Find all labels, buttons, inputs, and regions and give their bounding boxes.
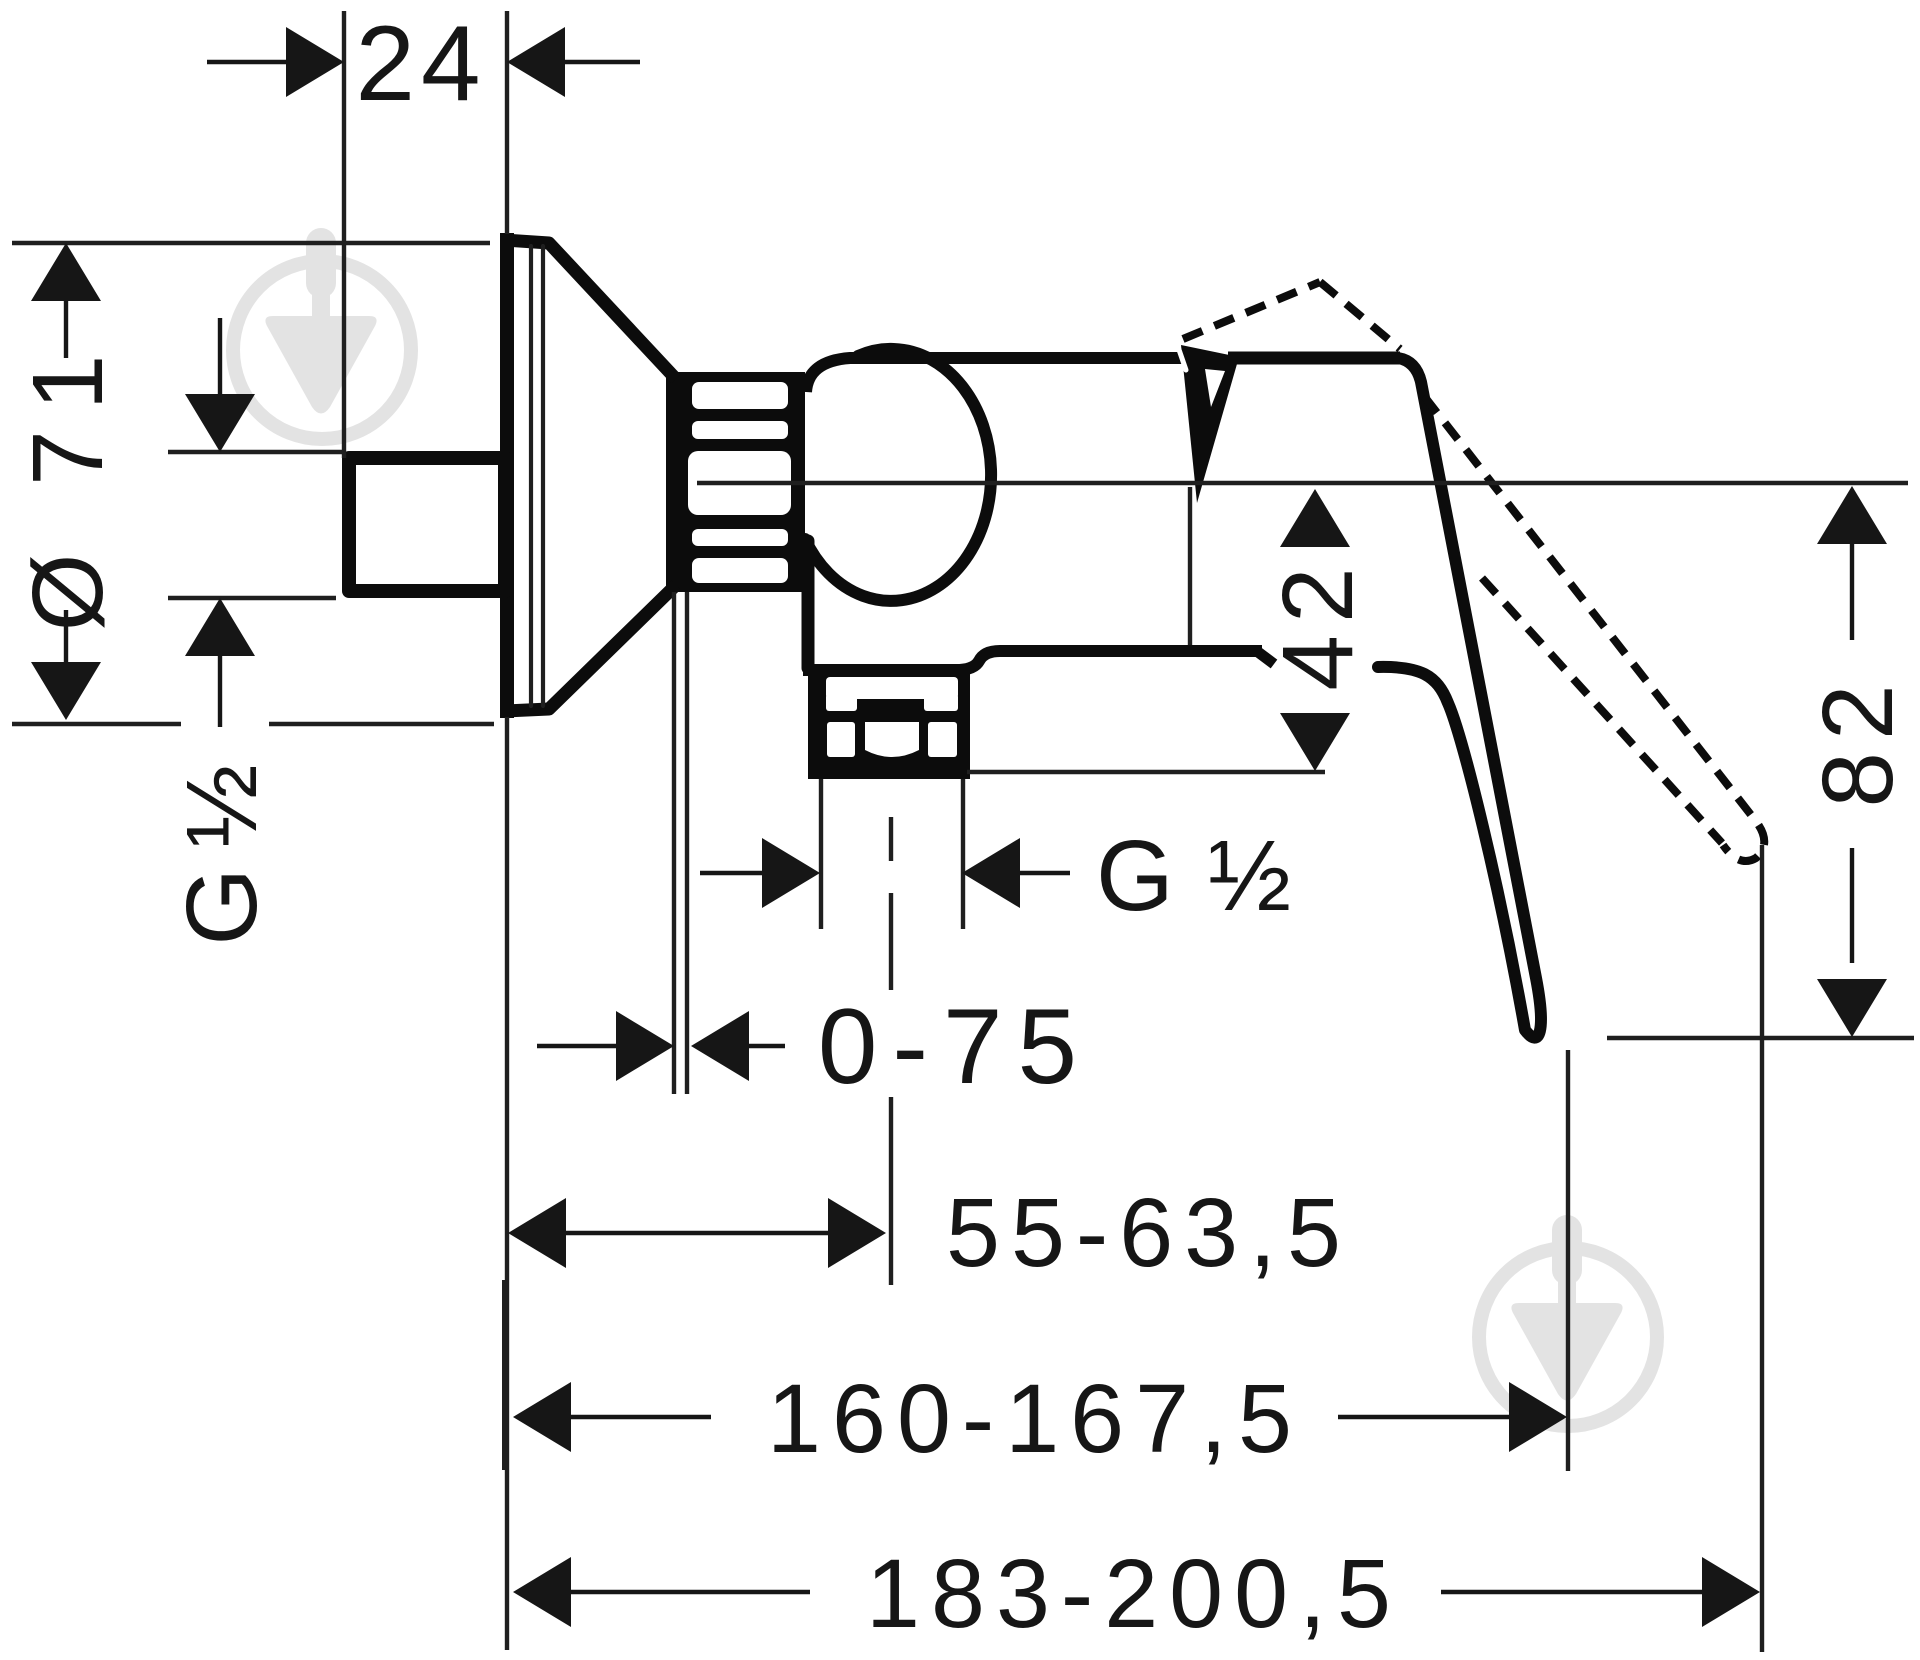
centerline through ball and handle <box>697 481 1908 485</box>
bottom extension line of dia 71 <box>12 722 494 726</box>
valve ball <box>805 349 991 601</box>
knurled connection nut <box>666 372 805 592</box>
lever handle (solid) <box>1228 352 1400 365</box>
dim 160-167,5 <box>513 1382 571 1452</box>
lever handle raised position (dashed) <box>1183 282 1764 861</box>
handle tip vertical extension <box>1566 1050 1570 1471</box>
dim dia71 vertical <box>31 243 101 301</box>
svg-text:183-200,5: 183-200,5 <box>866 1539 1402 1648</box>
dim 24 <box>207 60 286 64</box>
handle tip level extension (82) <box>1607 1036 1914 1040</box>
svg-text:55-63,5: 55-63,5 <box>946 1178 1352 1287</box>
handle wedge at body notch <box>1181 345 1239 503</box>
vertical extension at x=507 (flange face, full height) <box>505 11 509 1650</box>
body top edge <box>806 358 1197 392</box>
svg-text:160-167,5: 160-167,5 <box>767 1364 1303 1473</box>
wall flange cone <box>505 240 676 379</box>
outlet bottom level extension (42) <box>967 770 1325 774</box>
svg-text:42: 42 <box>1262 555 1374 690</box>
body/handle notch vertical <box>1188 487 1192 645</box>
watermark logo top-left <box>233 228 411 439</box>
outlet union nut <box>808 664 970 779</box>
dim 82 <box>1817 486 1887 544</box>
svg-text:82: 82 <box>1802 672 1914 807</box>
union nut side extensions <box>819 779 823 929</box>
doubled segment of main extension line <box>502 1280 506 1470</box>
double extension lines from flange (0-75) <box>672 592 676 1094</box>
stub bottom extension <box>168 596 336 600</box>
svg-text:24: 24 <box>355 3 486 123</box>
flange face plate <box>500 233 514 718</box>
svg-text:G ½: G ½ <box>1096 820 1298 932</box>
dashed-tip vertical extension <box>1760 845 1764 1652</box>
body bottom edge with step <box>803 651 1262 670</box>
stub top extension <box>168 450 344 454</box>
dim G1/2 middle (outlet) <box>700 871 762 875</box>
wall pipe stub <box>349 458 505 591</box>
dim 42 <box>1280 489 1350 547</box>
watermark logo bottom-right <box>1479 1215 1657 1426</box>
svg-text:Ø 71: Ø 71 <box>12 335 124 632</box>
outlet centerline ticks <box>889 817 893 1285</box>
dim 0-75 <box>537 1044 616 1048</box>
body lower-left drop <box>802 541 815 668</box>
svg-text:0-75: 0-75 <box>818 986 1092 1106</box>
vertical extension at x=344 (wall face) <box>342 11 346 458</box>
dim 183-200,5 <box>513 1557 571 1627</box>
dim 55-63,5 <box>508 1198 566 1268</box>
top extension line of dia 71 <box>12 241 490 245</box>
svg-text:G ½: G ½ <box>166 764 278 945</box>
dim G1/2 left (stub) <box>218 318 222 394</box>
